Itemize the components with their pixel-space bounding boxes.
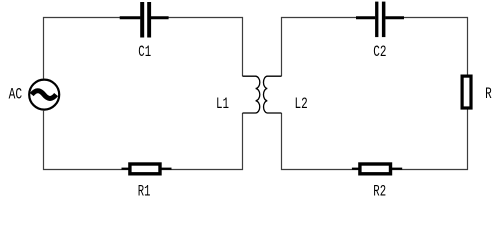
- svg-text:L1: L1: [216, 95, 229, 113]
- svg-text:R: R: [485, 85, 492, 103]
- svg-text:R2: R2: [373, 183, 386, 201]
- svg-text:L2: L2: [295, 95, 308, 113]
- svg-text:AC: AC: [9, 85, 23, 103]
- svg-text:C1: C1: [138, 43, 151, 61]
- svg-text:C2: C2: [373, 43, 386, 61]
- svg-text:R1: R1: [138, 183, 151, 201]
